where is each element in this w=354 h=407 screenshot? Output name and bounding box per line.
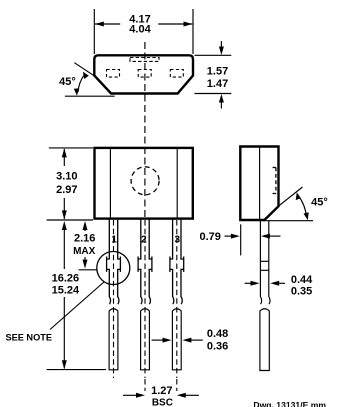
centerline extension below lead 2 <box>144 379 146 391</box>
front view dashed circle <box>131 167 159 195</box>
svg-text:45°: 45° <box>59 76 76 88</box>
dimension 3.10/2.97 extension lines <box>49 147 93 149</box>
dimension 3.10/2.97 line and arrows <box>63 149 65 166</box>
svg-text:3.10: 3.10 <box>56 170 77 182</box>
lead 1 <box>107 219 121 378</box>
dimension 0.44/0.35 arrows <box>245 282 252 284</box>
svg-text:1.57: 1.57 <box>207 65 228 77</box>
dimension 16.26/15.24 line and arrows <box>62 221 67 230</box>
lead tips extension line <box>47 369 106 371</box>
dimension 0.48/0.36 arrows <box>152 339 164 341</box>
svg-text:SEE NOTE: SEE NOTE <box>6 333 52 343</box>
top view lead 1 cross-section <box>107 70 120 78</box>
see-note leader line <box>50 282 105 330</box>
svg-text:3: 3 <box>175 235 181 246</box>
dimension 0.79 arrows and extension line <box>225 235 233 237</box>
svg-text:2.16: 2.16 <box>74 233 95 245</box>
see-note circle around lead 1 <box>97 252 130 285</box>
dimension 1.57/1.47 extension lines <box>195 54 232 56</box>
vertical centerline through top and front views <box>144 42 146 218</box>
top view hidden tab (dashed rect) <box>130 58 159 62</box>
side view lead <box>260 221 270 371</box>
svg-text:1.27: 1.27 <box>151 385 172 397</box>
svg-text:0.48: 0.48 <box>207 328 228 340</box>
dimension 2.16 MAX line and arrows <box>83 221 88 230</box>
front view bevel line left <box>109 149 111 217</box>
45 degree chamfer callout right: extended chamfer line <box>278 187 302 206</box>
45 degree right horizontal extension line <box>263 220 313 222</box>
svg-text:MAX: MAX <box>73 246 96 257</box>
svg-text:0.79: 0.79 <box>199 231 220 243</box>
svg-text:4.04: 4.04 <box>129 24 151 36</box>
45 degree left arc with arrows <box>78 75 85 93</box>
45 degree right arc with arrows <box>298 195 307 218</box>
top view body <box>94 55 193 93</box>
svg-text:0.35: 0.35 <box>291 285 312 297</box>
lead 3 <box>170 219 184 378</box>
svg-text:1.47: 1.47 <box>207 78 228 90</box>
svg-text:1: 1 <box>111 235 117 246</box>
svg-text:2: 2 <box>141 235 147 246</box>
side view body <box>240 147 278 221</box>
svg-text:BSC: BSC <box>152 397 173 407</box>
45 degree chamfer callout left: extended chamfer line <box>74 63 95 77</box>
side view parting line <box>259 148 261 220</box>
svg-text:45°: 45° <box>311 197 328 209</box>
lead 2 <box>138 219 152 378</box>
svg-text:Dwg. 13131/E mm: Dwg. 13131/E mm <box>253 400 326 407</box>
svg-text:0.44: 0.44 <box>291 274 313 286</box>
svg-text:0.36: 0.36 <box>207 341 228 353</box>
front view bevel line right <box>176 149 178 217</box>
dimension 1.27 BSC arrows <box>123 394 138 396</box>
svg-text:16.26: 16.26 <box>52 272 80 284</box>
centerline extension below lead 3 <box>176 379 178 391</box>
45 degree left horizontal extension line <box>65 95 115 97</box>
dimension 4.17/4.04 line and arrows <box>95 23 120 25</box>
dimension 4.17/4.04 extension lines <box>93 9 95 54</box>
side view hidden lead dashes <box>275 168 277 194</box>
svg-text:2.97: 2.97 <box>56 184 77 196</box>
svg-text:15.24: 15.24 <box>52 285 80 297</box>
front view body <box>95 148 193 219</box>
top view lead 3 cross-section <box>170 70 183 78</box>
top view lead 2 cross-section <box>138 70 151 78</box>
dimension 1.57/1.47 arrows <box>220 41 222 48</box>
